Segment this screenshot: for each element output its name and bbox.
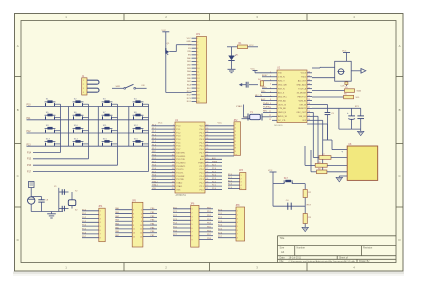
svg-text:JP1: JP1 [196,33,201,36]
wire keypad column net 2 [33,104,89,159]
designator D1 [236,55,240,57]
svg-text:P3.1: P3.1 [152,158,156,160]
svg-text:XTAL1: XTAL1 [152,184,158,187]
svg-text:1: 1 [241,175,242,177]
wire keypad column net 1 [33,104,61,152]
wire crystal bottom [59,206,72,209]
svg-text:2: 2 [241,178,242,180]
svg-text:11: 11 [172,158,174,160]
wire U3 ground [339,176,347,177]
svg-text:VSS_AU: VSS_AU [278,99,286,102]
svg-text:P14: P14 [27,152,32,154]
svg-text:2: 2 [100,214,101,216]
svg-text:3: 3 [197,45,198,47]
net label VCC at R1 [249,45,254,47]
svg-text:BLK: BLK [187,88,191,90]
pushbutton S17 reset [283,180,293,184]
capacitor CE1 electrolytic [28,197,35,204]
svg-text:VDM_IN: VDM_IN [298,100,306,102]
svg-text:P2.3: P2.3 [212,178,216,180]
title block text [280,236,373,263]
svg-text:P2.2: P2.2 [212,181,216,183]
net label XTAL1 [236,105,243,108]
svg-text:P1.5: P1.5 [152,141,156,143]
designator JP1 [196,33,201,36]
svg-text:CTS_N: CTS_N [278,77,285,79]
svg-text:7: 7 [237,234,238,236]
svg-text:12: 12 [140,229,142,231]
svg-text:PLAYL: PLAYL [263,102,270,105]
svg-text:9: 9 [192,239,193,241]
wire U2 to R5 [312,90,345,92]
zone numbers top [65,15,355,19]
svg-text:RXD_Y: RXD_Y [278,81,285,83]
svg-text:P3.2/INT0: P3.2/INT0 [176,162,186,164]
wire J1 jumper loop 3-4 [87,88,99,92]
svg-text:P2.7: P2.7 [212,165,216,167]
svg-text:12: 12 [172,161,174,163]
wire D1 to ground [231,61,233,69]
designator Y1 [250,112,254,114]
svg-text:6: 6 [235,141,236,143]
svg-text:P3.0/RXD: P3.0/RXD [176,156,185,158]
pin names U1 right [198,126,204,192]
svg-text:15: 15 [133,236,135,238]
designator BT1 [355,106,360,108]
title block frame [278,236,397,263]
connector JP1 LCD header [192,37,207,104]
designator U3 [348,144,352,146]
capacitor C4 [288,203,291,210]
wire keypad row net 1 [27,106,150,108]
wire R3 to ground [304,224,306,228]
svg-text:6: 6 [192,228,193,230]
svg-text:23: 23 [206,181,208,183]
svg-text:File:: File: [280,260,285,263]
svg-text:1: 1 [235,124,236,126]
pushbutton S2 [73,99,89,107]
designator C5 [331,113,335,115]
svg-text:JP6: JP6 [190,203,195,205]
svg-text:2: 2 [173,128,174,130]
svg-text:3: 3 [241,182,242,184]
svg-text:26: 26 [206,171,208,173]
svg-text:VSS: VSS [176,189,181,191]
wire VCC to R1 [227,46,238,48]
wire R7 net [313,157,319,159]
svg-text:11: 11 [197,71,199,73]
designator Y2 [75,190,78,192]
wire keypad column net 4 [33,104,149,171]
svg-text:4: 4 [197,48,198,50]
wires U1 right pins [205,126,234,190]
svg-text:25: 25 [206,175,208,177]
svg-text:3: 3 [192,216,193,218]
designator S17 [284,178,289,180]
net label keypad row 3 [27,131,32,133]
svg-text:20: 20 [172,188,174,190]
net label crystal top [54,186,57,188]
wire S17 to R2 [292,183,305,185]
svg-text:10: 10 [197,68,199,70]
pushbutton S15 [102,138,118,146]
wire J1 jumper loop 1-2 [87,80,99,84]
IC U2 body [277,70,307,123]
svg-text:13: 13 [133,233,135,235]
connector JP6 body [191,205,199,247]
svg-text:P3.7/RD: P3.7/RD [176,179,184,181]
pushbutton S13 [45,138,61,146]
svg-text:D: D [399,238,401,242]
resistor R1 [238,43,248,49]
svg-text:1: 1 [100,211,101,213]
svg-text:11: 11 [133,229,135,231]
svg-text:4: 4 [235,134,236,136]
svg-text:14: 14 [172,168,174,170]
svg-text:5: 5 [100,226,101,228]
power arrow port [361,69,366,74]
designator JP4 [98,206,103,208]
svg-text:P1.2: P1.2 [152,131,156,133]
svg-text:8: 8 [141,221,142,223]
net label crystal bottom [75,209,78,211]
wire bus U2 pin d [307,124,332,150]
wire R8 net [305,146,315,165]
svg-text:REC: REC [263,111,268,113]
svg-text:A: A [17,44,19,48]
svg-text:37: 37 [206,135,208,137]
svg-text:Drawn By:: Drawn By: [359,260,370,263]
wire power port down [30,188,32,197]
designator JP6 [190,203,195,205]
svg-text:26: 26 [308,72,310,74]
svg-text:3: 3 [237,218,238,220]
pushbutton S8 [133,112,149,120]
svg-text:OUT1_N: OUT1_N [278,104,286,106]
svg-text:7: 7 [133,221,134,223]
wire Q1 emitter down [165,54,167,93]
svg-text:VCC: VCC [162,30,167,32]
svg-text:P1.3: P1.3 [152,134,156,136]
svg-text:4: 4 [270,83,271,85]
svg-text:2: 2 [83,84,84,86]
pushbutton S14 [73,138,89,146]
svg-text:VCC: VCC [342,51,347,53]
svg-text:9: 9 [197,65,198,67]
power input port [29,182,35,188]
svg-text:6: 6 [197,55,198,57]
svg-text:9: 9 [235,151,236,153]
svg-text:21: 21 [308,91,310,93]
pushbutton S4 [133,99,149,107]
svg-text:P15: P15 [27,159,32,161]
svg-text:8: 8 [173,148,174,150]
pushbutton S10 [73,125,89,133]
svg-text:Revision: Revision [363,247,373,250]
svg-text:Number: Number [297,247,306,250]
svg-text:SW1: SW1 [116,86,122,88]
net label VCC at U1 pin40 [158,123,222,125]
svg-text:8: 8 [197,61,198,63]
svg-text:14: 14 [140,233,142,235]
crystal Y1 [248,114,272,121]
svg-text:VCC: VCC [158,123,163,125]
svg-text:VO: VO [188,45,191,47]
svg-text:P2.1: P2.1 [212,185,216,187]
svg-text:33: 33 [206,148,208,150]
svg-text:VCC: VCC [249,45,254,47]
net label keypad row 4 [27,144,32,146]
svg-text:P3.6/WR: P3.6/WR [176,176,185,178]
svg-text:4: 4 [100,222,101,224]
net label keypad column 4 [27,171,32,173]
svg-text:1: 1 [133,210,134,212]
svg-text:16: 16 [308,111,310,113]
pin names U1 left [176,126,186,192]
pin numbers and net labels U1 right [206,125,217,191]
svg-text:VCC: VCC [268,170,273,172]
pushbutton S1 [45,99,61,107]
svg-text:4: 4 [173,135,174,137]
ground at D1 [228,69,236,72]
svg-text:12: 12 [197,75,199,77]
svg-text:VCC: VCC [187,38,192,40]
wire U2 to C5 [312,105,328,113]
svg-text:1: 1 [237,211,238,213]
svg-text:1: 1 [83,80,84,82]
svg-text:VCC: VCC [218,123,223,125]
svg-text:24: 24 [308,79,310,81]
svg-text:AVDD_18: AVDD_18 [278,115,288,118]
svg-text:D: D [17,238,19,242]
svg-text:3: 3 [173,131,174,133]
svg-text:2: 2 [192,212,193,214]
svg-text:40: 40 [206,125,208,127]
svg-text:2: 2 [235,128,236,130]
connector JP8 body [236,207,245,241]
zone letters right [399,44,401,242]
svg-text:24: 24 [206,178,208,180]
connector JP5 body [132,202,143,247]
wire R2 to RST node [304,198,306,214]
svg-text:Size: Size [280,247,285,250]
svg-text:P2.4: P2.4 [212,175,216,177]
svg-text:BUSY: BUSY [262,75,268,77]
border zone ticks bottom [124,263,307,272]
svg-text:JP4: JP4 [98,206,103,208]
pushbutton S6 [73,112,89,120]
resistor R9 [317,168,327,173]
pin numbers and net labels U1 left [152,124,174,190]
svg-text:ALE: ALE [200,158,204,161]
svg-text:B: B [17,108,19,112]
pushbutton S3 [102,99,118,107]
svg-text:XTAL1: XTAL1 [176,185,183,188]
svg-text:16: 16 [172,175,174,177]
svg-text:21: 21 [206,188,208,190]
wire bus U2 pin b [312,116,318,165]
svg-text:S17: S17 [284,178,289,180]
svg-text:TOUT_A: TOUT_A [298,87,307,90]
svg-text:4: 4 [192,220,193,222]
svg-text:C:\Documents and Settings\Admi: C:\Documents and Settings\Administrator\… [289,260,356,263]
svg-text:SPK+: SPK+ [262,87,268,89]
wire bus U2 pin c [312,120,323,172]
svg-text:7: 7 [173,145,174,147]
svg-text:P3.7: P3.7 [152,178,156,180]
svg-text:VCC: VCC [251,69,256,71]
svg-text:27: 27 [206,168,208,170]
svg-text:22: 22 [206,185,208,187]
svg-text:VDD_32K: VDD_32K [278,84,288,86]
svg-text:PSEN: PSEN [212,161,218,163]
svg-text:P3.2: P3.2 [152,161,156,163]
border zone ticks top [124,14,307,21]
svg-text:1: 1 [197,38,198,40]
svg-text:18: 18 [308,103,310,105]
svg-text:22: 22 [308,87,310,89]
svg-text:29: 29 [206,161,208,163]
svg-text:4: 4 [141,213,142,215]
wire U2 to R6 [312,96,344,98]
svg-text:14: 14 [308,119,310,121]
svg-text:4: 4 [241,185,242,187]
power VCC port B1 [342,51,350,62]
svg-text:5: 5 [241,188,242,190]
resistor R5 [345,87,355,92]
wire R9 net [311,150,317,172]
net labels U2 left wires [255,75,270,113]
wire keypad column net 3 [33,104,118,165]
oscillator module B1 [335,61,352,81]
wire Y1 left [244,105,249,118]
svg-text:AU_OUT: AU_OUT [298,80,307,83]
svg-text:34: 34 [206,145,208,147]
svg-text:33K_I/O: 33K_I/O [299,116,307,118]
svg-text:35: 35 [206,141,208,143]
pushbutton S16 [133,138,149,146]
net label B1 bottom [341,85,346,87]
svg-text:A: A [399,44,401,48]
svg-text:5: 5 [197,51,198,53]
wire Q1 base to JP1 [169,45,191,52]
svg-text:6: 6 [141,217,142,219]
svg-text:XTAL1: XTAL1 [236,105,243,108]
svg-text:2: 2 [197,41,198,43]
svg-text:10: 10 [235,154,237,156]
svg-text:7: 7 [197,58,198,60]
ground at U3 [336,177,342,181]
connector JP4 body [99,208,105,242]
label U1 part number [176,194,187,197]
svg-text:P3.1/TXD: P3.1/TXD [176,159,185,161]
svg-text:P1.7: P1.7 [152,148,156,150]
pin stub B1 bottom [345,81,348,86]
svg-text:18: 18 [197,95,199,97]
wire top tie [31,196,41,198]
svg-text:7: 7 [192,232,193,234]
connector J1 [82,78,87,95]
svg-text:P17: P17 [27,171,32,173]
wire RST horizontal [273,205,305,207]
wire keypad grid links [69,107,129,147]
svg-text:20: 20 [197,101,199,103]
svg-text:23: 23 [308,83,310,85]
resistor R8 [315,162,327,167]
svg-text:1: 1 [173,125,174,127]
power VCC port Q1 [162,30,170,37]
svg-text:OSC_OUT: OSC_OUT [296,112,306,114]
svg-text:32: 32 [206,151,208,153]
svg-text:7: 7 [235,144,236,146]
svg-text:P1.1: P1.1 [152,128,156,130]
wire reset vertical [304,184,306,190]
label switch net [141,85,145,87]
svg-text:RST/VPD: RST/VPD [176,152,185,154]
net label R5 [357,89,362,92]
svg-text:10: 10 [172,155,174,157]
wire crystal top [59,192,72,200]
wires JP4 [82,211,99,238]
net label keypad row 2 [27,118,32,120]
wire R1 to VCC label [248,46,259,48]
wire U3 plus [332,150,347,154]
page shadow bottom [13,271,404,276]
svg-text:P2.6: P2.6 [212,168,216,170]
wire crystal left rail [58,188,60,212]
svg-text:17: 17 [197,91,199,93]
designator U1 [175,119,179,122]
net labels JP8 [218,209,223,238]
svg-text:GND_AU2: GND_AU2 [297,83,307,86]
svg-text:P10: P10 [27,105,32,107]
wire R9 to U3 [327,171,347,173]
svg-text:BLK_X: BLK_X [278,92,285,94]
svg-text:5: 5 [173,138,174,140]
svg-text:5: 5 [237,226,238,228]
svg-text:8: 8 [237,237,238,239]
svg-text:P3.4/T0: P3.4/T0 [176,169,184,171]
wire keypad row net 4 [27,145,150,147]
designator U2 [277,67,281,70]
svg-text:GND1_N: GND1_N [278,112,287,114]
svg-text:P3.4: P3.4 [152,168,156,170]
svg-text:19: 19 [308,99,310,101]
svg-text:8: 8 [192,235,193,237]
svg-text:Title: Title [280,236,285,240]
svg-text:Sheet of: Sheet of [339,257,348,260]
IC U1 body [175,122,205,193]
svg-text:15: 15 [197,85,199,87]
capacitor C5 [323,113,331,141]
designator JP7 [239,170,244,172]
svg-text:38: 38 [206,131,208,133]
svg-text:36: 36 [206,138,208,140]
net label keypad column 1 [27,152,32,154]
wires U2 left nets [255,77,272,113]
wire keypad row net 3 [27,132,150,134]
wire bus U2 pin a [312,112,313,157]
net labels JP5 [115,207,155,237]
svg-text:19: 19 [197,98,199,100]
svg-text:P12: P12 [27,131,32,133]
svg-text:ISD1420: ISD1420 [274,125,283,127]
svg-text:P3.5: P3.5 [152,171,156,173]
svg-text:P13: P13 [27,144,32,146]
svg-text:8: 8 [235,148,236,150]
svg-text:AGC: AGC [261,98,266,101]
svg-text:2: 2 [141,210,142,212]
